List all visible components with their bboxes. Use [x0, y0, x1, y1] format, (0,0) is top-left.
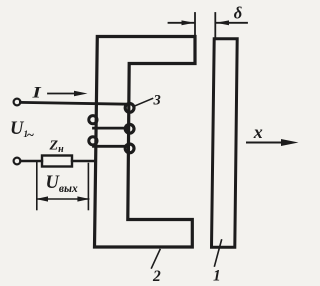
extension line left (Uвых)	[36, 162, 38, 210]
svg-text:I: I	[31, 84, 41, 102]
leader line for 3	[134, 99, 153, 107]
extension line left (gap δ, core edge)	[194, 13, 196, 37]
arrowhead Uвых left	[36, 196, 48, 201]
svg-text:3: 3	[153, 93, 161, 109]
arrow shaft x	[247, 142, 284, 144]
arrowhead I	[74, 91, 88, 96]
resistor Zн box	[42, 156, 72, 167]
dimension line δ left part	[169, 22, 195, 24]
extension line right (Uвых)	[87, 164, 89, 210]
coil 3 left loop a	[89, 116, 97, 124]
arrowhead Uвых right	[77, 196, 89, 201]
armature bar 1	[212, 39, 238, 248]
extension line right (gap δ, bar edge)	[214, 13, 216, 39]
arrowhead δ left (points right at core edge)	[182, 20, 195, 25]
coil 3 turn 3 crossing limb	[94, 145, 129, 148]
coil 3 right loop b	[125, 124, 134, 133]
coil 3 right loop c	[125, 144, 134, 153]
terminal (lower input)	[14, 158, 21, 165]
coil 3 left loop b	[89, 137, 97, 145]
arrowhead δ right (points left at bar edge)	[216, 20, 229, 25]
svg-text:δ: δ	[234, 4, 242, 23]
arrow shaft I	[48, 93, 80, 95]
wire (input feed + coil turn 1 crossing limb)	[20, 102, 129, 104]
wire (lower terminal to Zн box)	[20, 160, 42, 162]
dimension line Uвых	[37, 198, 89, 200]
coil 3 right loop a	[125, 104, 134, 113]
core 2 (C-shaped magnetic core outline)	[95, 37, 196, 248]
terminal (upper input)	[14, 99, 21, 106]
dimension line δ right part	[216, 22, 247, 24]
svg-text:x: x	[253, 122, 263, 142]
svg-text:1: 1	[213, 268, 221, 285]
coil 3 turn 2 crossing limb	[94, 127, 129, 130]
leader line for 2	[152, 250, 161, 269]
arrowhead x	[281, 139, 299, 146]
leader line for 1	[215, 240, 222, 266]
svg-text:2: 2	[152, 268, 161, 285]
wire (Zн box to core limb)	[72, 160, 95, 162]
